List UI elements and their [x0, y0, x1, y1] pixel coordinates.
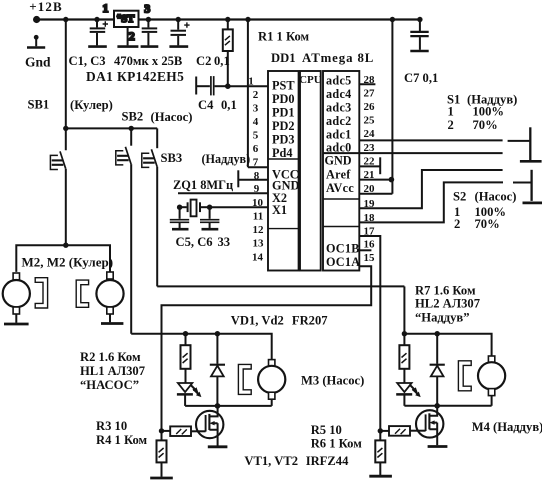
IC DD1 CPU box: [300, 71, 321, 271]
motor M2b (right cooler motor): [96, 272, 123, 322]
svg-text:13: 13: [253, 237, 265, 249]
ground below regulator pin 2: [117, 45, 138, 48]
svg-text:PD2: PD2: [272, 119, 295, 133]
svg-text:CPU: CPU: [299, 74, 322, 86]
ground below C7: [410, 50, 428, 53]
wire pin 9 GND line: [178, 192, 268, 194]
wire pin 21: [359, 179, 391, 181]
ground below M2b: [101, 322, 123, 325]
svg-text:(Наддув): (Наддув): [202, 152, 251, 166]
svg-text:M3 (Насос): M3 (Насос): [301, 373, 364, 387]
node VT2 gate node: [378, 428, 383, 433]
svg-text:9: 9: [254, 183, 260, 195]
resistor R6: [375, 431, 385, 475]
svg-text:28: 28: [364, 74, 376, 86]
IC DD1 left label box: [268, 71, 299, 271]
svg-text:ZQ1 8МГц: ZQ1 8МГц: [173, 178, 233, 192]
wire pin 7 line: [248, 166, 268, 168]
node Vd2 top junction: [435, 331, 440, 336]
svg-text:ST: ST: [121, 13, 135, 25]
svg-text:C1, C3: C1, C3: [69, 54, 106, 68]
wire SB2 feed to M3: [131, 334, 272, 360]
node +12V input terminal: [33, 16, 40, 23]
svg-text:VD1, Vd2: VD1, Vd2: [231, 314, 284, 328]
node R7 top junction: [402, 331, 407, 336]
capacitor C2: [142, 20, 158, 46]
button SB3: [142, 149, 157, 167]
svg-text:SB3: SB3: [161, 151, 183, 165]
svg-text:Pd4: Pd4: [272, 146, 293, 160]
svg-text:12: 12: [253, 224, 265, 236]
resistor R1: [223, 20, 233, 87]
svg-text:5: 5: [253, 129, 259, 141]
ground below C3: [169, 45, 188, 48]
svg-text:PD3: PD3: [272, 133, 295, 147]
wire pin 24 to S1 throw 1: [359, 139, 502, 141]
svg-text:(Насос): (Насос): [151, 110, 193, 124]
svg-text:OC1A: OC1A: [326, 255, 360, 269]
svg-text:10: 10: [252, 197, 264, 209]
node rail-C1 junction: [94, 17, 99, 22]
svg-text:R4 1 Ком: R4 1 Ком: [96, 433, 148, 447]
svg-text:PD1: PD1: [272, 106, 295, 120]
svg-text:2: 2: [253, 89, 259, 101]
node rail-R1 junction: [225, 17, 230, 22]
wire pin 15 to VT1 gate node: [162, 266, 372, 431]
fan bracket of M2a: [35, 278, 47, 308]
IC DD1 right box divider 2: [323, 226, 359, 228]
svg-text:470мк x 25В: 470мк x 25В: [114, 54, 183, 68]
svg-text:OC1B: OC1B: [326, 241, 360, 255]
svg-text:23: 23: [364, 142, 376, 154]
ground below C2: [141, 45, 159, 48]
svg-text:2: 2: [454, 217, 460, 231]
svg-text:6: 6: [253, 143, 259, 155]
svg-text:7: 7: [253, 156, 259, 168]
svg-text:2: 2: [448, 118, 454, 132]
svg-text:(Кулер): (Кулер): [70, 98, 113, 112]
wire drain bus M4: [404, 405, 491, 407]
LED HL2: [396, 383, 421, 406]
svg-text:adc5: adc5: [326, 73, 352, 87]
svg-text:27: 27: [364, 87, 376, 99]
svg-text:Aref: Aref: [326, 167, 351, 181]
wire pins 2-7 bracket vertical: [247, 20, 249, 168]
regulator DA1 box: [114, 11, 139, 46]
ground below R4: [150, 477, 173, 480]
svg-text:R3 10: R3 10: [96, 419, 127, 433]
svg-text:17: 17: [364, 226, 376, 238]
button SB1: [50, 151, 65, 169]
diode Vd2: [430, 334, 445, 406]
wire drain bus M3: [185, 405, 272, 407]
resistor R3: [162, 426, 192, 436]
wire SB1 from rail: [65, 20, 67, 151]
LED HL1: [177, 383, 202, 406]
capacitor C7: [410, 20, 428, 50]
svg-text:C5, C6: C5, C6: [176, 235, 213, 249]
svg-text:1: 1: [248, 75, 254, 87]
svg-text:SB2: SB2: [122, 110, 144, 124]
ground below M2a: [4, 323, 29, 326]
node VT1 gate node: [159, 428, 164, 433]
svg-text:R6 1 Ком: R6 1 Ком: [311, 436, 363, 450]
svg-text:14: 14: [252, 251, 264, 263]
node SB2 feed junction: [129, 126, 134, 131]
switch S2 contact bar: [530, 170, 532, 201]
svg-text:ATmega 8L: ATmega 8L: [302, 51, 374, 65]
svg-text:C4: C4: [198, 98, 214, 112]
wire SB3 upper: [156, 128, 158, 148]
motor M4: [478, 356, 505, 406]
button SB2: [116, 147, 131, 165]
wire SB2 upper: [130, 128, 132, 145]
diode VD1: [210, 334, 225, 406]
svg-text:20: 20: [364, 183, 376, 195]
svg-text:HL1 АЛ307: HL1 АЛ307: [80, 364, 145, 378]
svg-text:2: 2: [129, 29, 135, 43]
node rail-C2 junction: [146, 17, 151, 22]
svg-text:SB1: SB1: [28, 98, 50, 112]
svg-text:R5 10: R5 10: [311, 423, 342, 437]
svg-text:(Насос): (Насос): [475, 189, 517, 203]
svg-text:15: 15: [364, 252, 376, 264]
capacitor C3: [171, 20, 190, 46]
svg-text:21: 21: [364, 169, 375, 181]
wire +12V rail: [37, 18, 420, 20]
svg-text:100%: 100%: [473, 105, 504, 119]
fan bracket of M4: [458, 361, 471, 391]
svg-text:33: 33: [218, 235, 231, 249]
IC DD1 left box divider 1: [268, 158, 299, 160]
svg-text:R7 1.6 Ком: R7 1.6 Ком: [415, 284, 476, 298]
wire pin 17 to VT2 gate node: [359, 236, 380, 431]
svg-text:adc2: adc2: [326, 114, 352, 128]
resistor R7: [399, 334, 409, 383]
ground below C5: [172, 228, 189, 231]
svg-text:70%: 70%: [475, 217, 500, 231]
IC DD1 left box divider 2: [268, 228, 299, 230]
svg-text:26: 26: [364, 101, 376, 113]
resistor R4: [157, 431, 167, 477]
svg-text:VT1, VT2: VT1, VT2: [244, 454, 298, 468]
svg-text:X1: X1: [272, 203, 287, 217]
ground below R6: [369, 475, 392, 478]
svg-text:0,1: 0,1: [214, 54, 230, 68]
wire pin 10 line: [210, 206, 268, 208]
svg-text:FR207: FR207: [292, 314, 328, 328]
ground below VT1: [208, 445, 228, 448]
transistor VT1: [191, 407, 223, 446]
svg-text:3: 3: [253, 102, 259, 114]
svg-text:М2, М2 (Кулер): М2, М2 (Кулер): [22, 255, 114, 270]
crystal ZQ1: [177, 200, 212, 217]
svg-text:18: 18: [364, 212, 376, 224]
node rail-C7 junction: [417, 17, 422, 22]
node rail-pin-bracket junction: [245, 17, 250, 22]
svg-text:Gnd: Gnd: [25, 55, 51, 70]
wire pin 23 to S1 throw 2 (with internal divider): [323, 152, 503, 154]
wire SB3 down: [156, 167, 158, 287]
svg-text:25: 25: [364, 114, 376, 126]
svg-text:adc1: adc1: [326, 127, 352, 141]
wire SB3 corner down to M4 supply: [403, 286, 405, 333]
wire AVcc vertical from rail: [391, 20, 393, 194]
wire to pin 1: [228, 85, 268, 87]
svg-text:AVcc: AVcc: [326, 181, 354, 195]
svg-text:70%: 70%: [473, 118, 498, 132]
svg-text:22: 22: [364, 155, 376, 167]
svg-text:R1 1 Ком: R1 1 Ком: [258, 30, 310, 44]
wire pin 28 stub: [359, 83, 375, 85]
svg-text:1: 1: [103, 1, 109, 15]
svg-text:“НАСОС”: “НАСОС”: [80, 378, 139, 392]
motor M2a (left cooler motor): [3, 273, 30, 323]
svg-text:16: 16: [364, 238, 376, 250]
switch S1 base bar: [520, 160, 542, 163]
node SB1/feed junction: [63, 126, 68, 131]
svg-text:11: 11: [253, 210, 263, 222]
node pin21/AVcc-rail junction: [389, 177, 395, 183]
svg-text:PD0: PD0: [272, 92, 295, 106]
svg-text:M4 (Наддув): M4 (Наддув): [472, 420, 542, 434]
fan bracket of M2b: [76, 280, 88, 307]
node drain bus junction: [215, 403, 221, 409]
node SB1/M2 junction: [63, 243, 68, 248]
svg-text:adc4: adc4: [326, 87, 352, 101]
svg-text:DA1 КР142ЕН5: DA1 КР142ЕН5: [86, 69, 184, 84]
svg-text:IRFZ44: IRFZ44: [306, 454, 349, 468]
ground below C1: [88, 45, 107, 48]
capacitor C6: [200, 207, 219, 228]
wire M2 motors feed bar: [16, 245, 110, 272]
motor M3: [258, 360, 285, 406]
ground Gnd input terminal: [27, 35, 45, 48]
capacitor C5: [170, 207, 189, 228]
svg-text:C2: C2: [196, 54, 211, 68]
wire button feed line: [66, 127, 157, 129]
node drain bus M4 junction: [434, 403, 440, 409]
node rail-AVcc junction: [390, 17, 395, 22]
svg-text:8: 8: [254, 170, 260, 182]
resistor R2: [181, 334, 191, 383]
capacitor C1: [90, 20, 108, 46]
wire pin 19 to S2 throw 1: [359, 170, 502, 208]
svg-text:“Наддув”: “Наддув”: [415, 311, 470, 325]
svg-text:C7 0,1: C7 0,1: [404, 71, 438, 85]
node VD1 top junction: [215, 331, 220, 336]
wire SB3 feed to M4 driver: [157, 285, 404, 287]
wire pin 18 to S2 throw 2: [359, 182, 503, 222]
wire pin 8 with terminal bar: [238, 170, 268, 187]
svg-text:adc3: adc3: [326, 100, 352, 114]
resistor R5: [380, 426, 410, 436]
svg-text:adc0: adc0: [326, 140, 352, 154]
IC DD1 right box divider 1: [323, 198, 359, 200]
node rail-C3 junction: [176, 17, 181, 22]
ground below VT2: [428, 445, 448, 448]
svg-text:4: 4: [253, 116, 259, 128]
capacitor C4: [196, 76, 228, 95]
wire SB2 down: [130, 164, 132, 334]
transistor VT2: [410, 406, 443, 445]
svg-text:S2: S2: [453, 189, 466, 203]
node C4/R1/pin1 junction: [225, 83, 231, 89]
svg-text:+12В: +12В: [29, 0, 62, 14]
ground below C6: [202, 228, 219, 231]
node R2 top junction: [183, 331, 188, 336]
wire pin 16 stub: [359, 249, 371, 251]
svg-text:0,1: 0,1: [221, 98, 237, 112]
svg-text:HL2 АЛ307: HL2 АЛ307: [415, 297, 480, 311]
svg-text:3: 3: [144, 2, 150, 16]
node rail-SB1 junction: [63, 17, 68, 22]
fan bracket of M3: [238, 364, 251, 394]
switch S2 pole arm: [513, 182, 531, 184]
svg-text:19: 19: [364, 198, 376, 210]
svg-text:GND: GND: [325, 154, 352, 168]
svg-text:1: 1: [448, 105, 454, 119]
switch S2 base bar: [523, 202, 542, 205]
wire pin 20: [359, 193, 392, 195]
IC DD1 right label box: [323, 71, 359, 271]
switch S1 pole arm: [508, 140, 530, 142]
svg-text:PST: PST: [272, 79, 295, 93]
wire pin 22 with terminal bar: [359, 157, 380, 174]
svg-text:R2 1.6 Ком: R2 1.6 Ком: [80, 350, 141, 364]
wire M4 feed: [404, 334, 491, 356]
switch S1 contact bar: [529, 127, 531, 160]
svg-text:DD1: DD1: [271, 51, 296, 65]
svg-text:24: 24: [364, 128, 376, 140]
wire SB1 to motors: [65, 169, 67, 246]
